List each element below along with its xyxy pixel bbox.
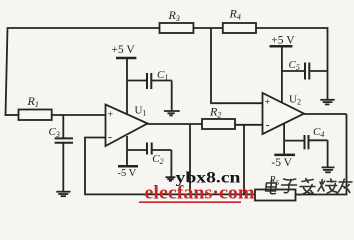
resistor R1 xyxy=(19,110,52,121)
svg-text:-: - xyxy=(108,129,112,143)
resistor R4 xyxy=(223,23,256,33)
ground top right xyxy=(320,100,334,105)
svg-text:+5 V: +5 V xyxy=(112,44,136,56)
wire R2 drop to R5 xyxy=(243,125,245,195)
svg-text:-: - xyxy=(266,117,270,131)
op-amp U2 xyxy=(263,93,305,134)
svg-text:-5 V: -5 V xyxy=(118,168,137,179)
capacitor C5 xyxy=(282,70,305,72)
svg-text:-5 V: -5 V xyxy=(271,157,292,169)
wire R2 to U2 inverting input xyxy=(235,124,263,126)
resistor R5 xyxy=(255,190,296,201)
wire U1 inverting input loop xyxy=(85,138,255,195)
svg-text:+5 V: +5 V xyxy=(271,35,295,47)
resistor R3 xyxy=(160,23,194,33)
watermark chinese characters xyxy=(265,179,352,196)
svg-text:elecfans·com: elecfans·com xyxy=(145,184,256,204)
capacitor C4 xyxy=(284,140,304,142)
-5V supply U2 xyxy=(283,123,285,154)
wire U1 output xyxy=(148,123,203,125)
capacitor C3 xyxy=(62,115,64,138)
wire R1 left xyxy=(5,114,19,116)
svg-text:+: + xyxy=(265,97,271,108)
wire U1 output feedback drop xyxy=(189,124,191,194)
capacitor C2 xyxy=(127,149,147,151)
ground for C1 xyxy=(164,81,180,116)
wire R1 to U1 + input xyxy=(52,114,106,116)
resistor R2 xyxy=(202,119,235,129)
ground for C2 xyxy=(165,150,175,181)
capacitor C1 xyxy=(127,80,147,82)
op-amp U1 xyxy=(106,105,148,147)
wire U2 output xyxy=(304,113,347,115)
wire top feedback rail left xyxy=(6,28,160,116)
wire junction drop to U2 noninverting input xyxy=(211,28,263,103)
wire R4 to right ground drop xyxy=(256,28,328,99)
ground for C3 xyxy=(56,192,70,197)
watermark underline xyxy=(139,201,241,203)
wire between R3 and R4 xyxy=(193,27,222,29)
-5V supply U1 xyxy=(126,136,128,166)
svg-text:+: + xyxy=(108,109,114,120)
wire R5 to U2 output xyxy=(296,114,347,195)
ground for C4 xyxy=(322,140,335,172)
